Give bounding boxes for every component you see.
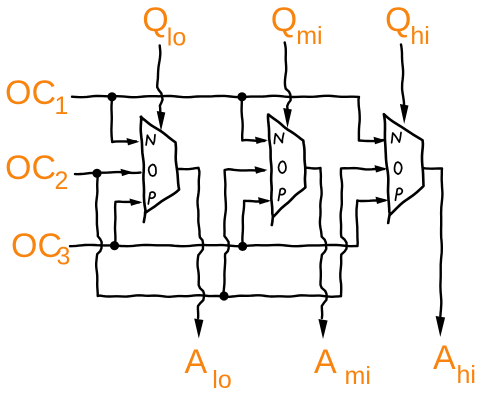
svg-text:hi: hi bbox=[457, 361, 476, 389]
junction dot OC1 / U2 N-drop bbox=[237, 92, 246, 101]
svg-text:3: 3 bbox=[57, 243, 71, 271]
pin label O (U1) bbox=[149, 165, 156, 177]
wire U1 output to A_lo bbox=[178, 168, 205, 318]
pin label P (U2) bbox=[278, 189, 285, 201]
junction dot OC3 / U1 P-riser bbox=[110, 241, 119, 250]
wire bottom bus riser to U2 pin O bbox=[223, 169, 264, 296]
svg-text:lo: lo bbox=[167, 24, 186, 52]
svg-text:A: A bbox=[433, 339, 456, 377]
svg-text:OC: OC bbox=[5, 74, 56, 112]
svg-text:A: A bbox=[185, 343, 208, 381]
svg-text:lo: lo bbox=[212, 366, 231, 394]
svg-text:OC: OC bbox=[11, 227, 62, 265]
pin label P (U3) bbox=[395, 188, 402, 200]
svg-text:Q: Q bbox=[142, 1, 168, 39]
pin label N (U1) bbox=[146, 135, 155, 145]
wire OC3 riser to U1 pin P bbox=[115, 202, 139, 246]
svg-text:A: A bbox=[314, 343, 337, 381]
pin label P (U1) bbox=[148, 192, 155, 204]
svg-text:OC: OC bbox=[5, 149, 56, 187]
mux U3 (hi) bbox=[384, 114, 424, 215]
wire OC1 bus into U3 pin N bbox=[72, 96, 383, 141]
wire OC2 drop, bottom bus, riser to U3 pin O bbox=[96, 168, 384, 297]
wire Q_lo to U1 select input bbox=[157, 46, 162, 113]
wire Q_mi to U2 select input bbox=[285, 43, 291, 110]
svg-text:1: 1 bbox=[55, 92, 69, 120]
wire U2 output to A_mi bbox=[305, 168, 327, 318]
pin label O (U2) bbox=[279, 161, 287, 173]
svg-text:hi: hi bbox=[410, 22, 429, 50]
junction dot OC3 / U2 P-riser bbox=[238, 242, 247, 251]
wire U3 output to A_hi bbox=[423, 168, 443, 316]
pin label O (U3) bbox=[395, 162, 402, 174]
svg-text:mi: mi bbox=[345, 362, 371, 390]
wire OC1 drop to U1 pin N bbox=[111, 97, 136, 142]
wire OC1 drop to U2 pin N bbox=[242, 97, 265, 141]
wire OC3 bus, riser to U3 pin P bbox=[70, 200, 385, 246]
pin label N (U3) bbox=[392, 133, 401, 143]
mux U2 (mi) bbox=[268, 115, 305, 217]
junction dot OC2 / drop to bottom bus bbox=[92, 169, 101, 178]
svg-text:mi: mi bbox=[296, 22, 322, 50]
svg-text:Q: Q bbox=[271, 1, 297, 39]
svg-text:2: 2 bbox=[55, 167, 69, 195]
wire Q_hi to U3 select input bbox=[401, 45, 404, 106]
mux U1 (lo) bbox=[141, 117, 179, 213]
wire OC2 to U1 pin O bbox=[75, 172, 141, 174]
wire OC3 riser to U2 pin P bbox=[242, 201, 267, 247]
svg-text:Q: Q bbox=[385, 1, 411, 39]
pin label N (U2) bbox=[274, 133, 283, 143]
junction dot bottom bus / U2 O-riser bbox=[219, 291, 228, 300]
junction dot OC1 / U1 N-drop bbox=[107, 92, 116, 101]
